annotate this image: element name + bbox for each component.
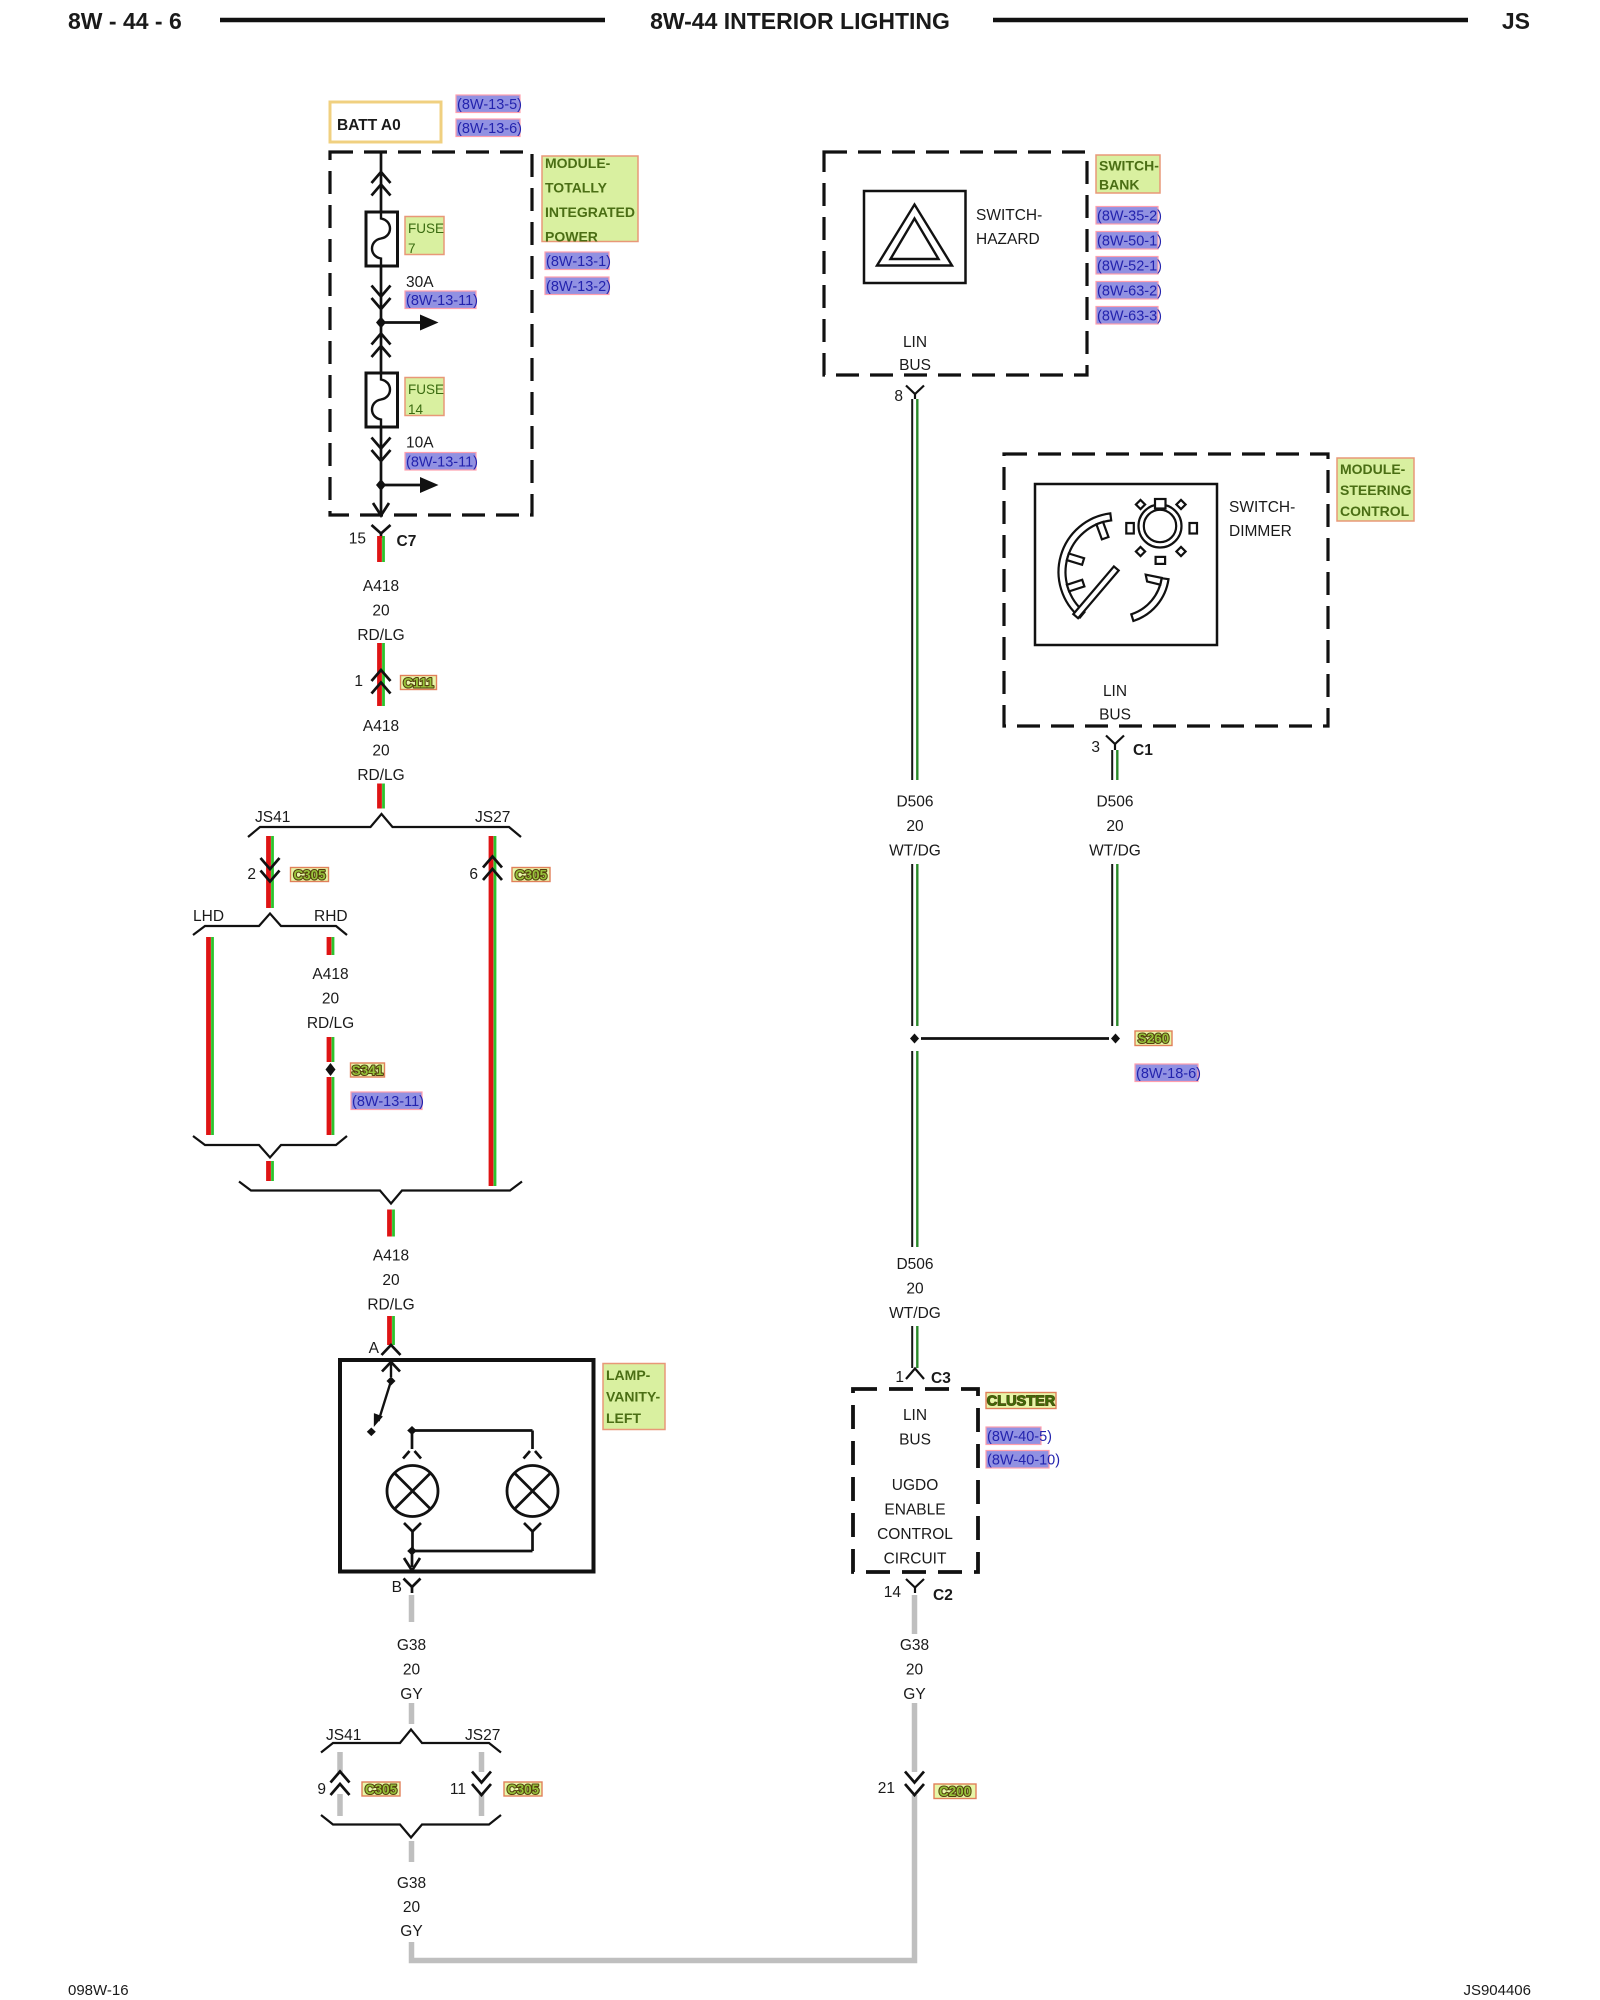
header rule right <box>993 18 1468 23</box>
label FUSE 14 <box>405 378 444 416</box>
svg-text:DIMMER: DIMMER <box>1229 523 1292 540</box>
label LAMP-VANITY-LEFT <box>603 1364 665 1430</box>
wire LIN bus from C1 <box>1111 750 1113 780</box>
wire JS41 gray branch <box>337 1752 343 1772</box>
wire fuse 7 to fuse 14 <box>380 266 383 373</box>
svg-text:(8W-13-11): (8W-13-11) <box>406 293 478 309</box>
svg-text:WT/DG: WT/DG <box>889 1305 941 1322</box>
connector C305 chevrons up <box>483 857 502 868</box>
connector C1 <box>1106 736 1124 745</box>
dimmer sun ring <box>1139 505 1182 548</box>
svg-text:8: 8 <box>894 388 903 405</box>
svg-text:(8W-63-3): (8W-63-3) <box>1097 309 1162 325</box>
svg-text:20: 20 <box>403 1899 421 1916</box>
svg-text:VANITY-: VANITY- <box>606 1389 661 1405</box>
wire G38 gray <box>912 1595 918 1634</box>
svg-text:G38: G38 <box>397 1637 426 1654</box>
label SWITCH-BANK <box>1096 155 1160 193</box>
svg-text:RD/LG: RD/LG <box>307 1015 354 1032</box>
wire to lamp pin A <box>387 1316 392 1345</box>
wire battery feed into fuse 7 <box>380 152 383 212</box>
svg-text:BUS: BUS <box>1099 707 1131 724</box>
cluster dashed box <box>853 1389 978 1572</box>
wire gray to ground run <box>412 1795 915 1961</box>
svg-text:LHD: LHD <box>193 908 224 925</box>
svg-text:SWITCH-: SWITCH- <box>976 207 1042 224</box>
svg-text:C305: C305 <box>293 868 326 883</box>
wire below merge <box>387 1210 392 1237</box>
switch blade <box>379 1381 392 1421</box>
label C305 <box>291 868 329 882</box>
svg-text:10A: 10A <box>406 435 434 452</box>
svg-text:7: 7 <box>408 241 416 256</box>
svg-text:20: 20 <box>906 1281 924 1298</box>
svg-text:3: 3 <box>1091 739 1100 756</box>
switch pivot <box>387 1377 396 1386</box>
dimmer tick 4 <box>1146 575 1162 585</box>
fuse F7 <box>366 212 398 266</box>
svg-text:BUS: BUS <box>899 357 931 374</box>
svg-text:RD/LG: RD/LG <box>357 627 404 644</box>
pin A chevron inside <box>382 1362 400 1372</box>
svg-text:C3: C3 <box>931 1370 951 1387</box>
svg-text:A418: A418 <box>363 578 399 595</box>
connector pin B <box>404 1579 421 1588</box>
svg-text:WT/DG: WT/DG <box>889 843 941 860</box>
svg-text:LEFT: LEFT <box>606 1410 641 1426</box>
svg-text:S341: S341 <box>352 1063 384 1078</box>
connector C3 chevron <box>906 1369 924 1380</box>
svg-text:C111: C111 <box>403 676 434 691</box>
lamp 1 lower connector <box>404 1523 421 1532</box>
svg-text:C305: C305 <box>365 1782 398 1797</box>
ref label (8W-13-11) <box>405 453 476 471</box>
connector C305 chevrons down <box>472 1772 491 1783</box>
svg-text:(8W-18-6): (8W-18-6) <box>1136 1066 1201 1082</box>
merge brace to single feed <box>239 1182 522 1204</box>
svg-text:GY: GY <box>903 1686 925 1703</box>
svg-text:ENABLE: ENABLE <box>884 1502 945 1519</box>
svg-text:C305: C305 <box>515 868 548 883</box>
ref label (8W-18-6) <box>1135 1064 1198 1082</box>
wire below merge <box>266 1161 271 1181</box>
hazard triangle outer <box>877 205 952 266</box>
svg-text:C305: C305 <box>507 1782 540 1797</box>
svg-text:098W-16: 098W-16 <box>68 1982 129 1999</box>
ref label (8W-52-1) <box>1096 257 1158 275</box>
label CLUSTER <box>986 1393 1056 1409</box>
wire LIN bus to cluster <box>911 1326 913 1368</box>
svg-text:MODULE-: MODULE- <box>545 155 611 171</box>
svg-text:14: 14 <box>884 1584 902 1601</box>
ref label (8W-13-11) <box>351 1092 422 1110</box>
svg-text:(8W-40-10): (8W-40-10) <box>987 1453 1060 1469</box>
steering control module dashed box <box>1004 454 1328 726</box>
svg-text:20: 20 <box>906 818 924 835</box>
connector C200 chevrons down <box>905 1772 924 1783</box>
switch contact <box>367 1428 376 1437</box>
connector C305 chevrons down <box>261 858 280 869</box>
dimmer tick 3 <box>1067 580 1085 592</box>
svg-text:(8W-13-2): (8W-13-2) <box>546 279 611 295</box>
svg-text:MODULE-: MODULE- <box>1340 461 1406 477</box>
svg-text:(8W-52-1): (8W-52-1) <box>1097 259 1162 275</box>
svg-text:S260: S260 <box>1138 1031 1170 1046</box>
svg-text:20: 20 <box>906 1662 924 1679</box>
ref label (8W-13-6) <box>456 119 520 137</box>
svg-text:11: 11 <box>450 1781 466 1798</box>
svg-text:LIN: LIN <box>903 334 927 351</box>
label C305 <box>512 868 550 882</box>
lamp vanity left box <box>340 1360 594 1572</box>
ref label (8W-63-3) <box>1096 307 1158 325</box>
ref label (8W-40-10) <box>986 1451 1049 1469</box>
label MODULE-TOTALLY INTEGRATED POWER <box>542 156 638 242</box>
connector C111 chevrons <box>372 670 391 681</box>
svg-text:C7: C7 <box>397 533 417 550</box>
svg-text:14: 14 <box>408 402 424 417</box>
svg-text:C200: C200 <box>939 1784 971 1799</box>
dimmer sun top notch <box>1155 499 1166 509</box>
svg-text:JS: JS <box>1502 8 1530 34</box>
lamp 2 connector chevron <box>524 1451 531 1459</box>
merge brace LHD/RHD <box>193 1136 347 1158</box>
header rule left <box>220 18 605 23</box>
svg-text:CIRCUIT: CIRCUIT <box>884 1551 947 1568</box>
lamp return wire bottom <box>412 1550 533 1553</box>
lamp 1 bulb <box>387 1466 438 1517</box>
ref label (8W-13-11) <box>405 291 476 309</box>
label S341 <box>351 1063 385 1077</box>
svg-text:TOTALLY: TOTALLY <box>545 180 608 196</box>
wire RHD to splice S341 <box>327 1037 332 1062</box>
switch bank dashed box <box>824 152 1087 375</box>
svg-text:JS27: JS27 <box>475 809 510 826</box>
svg-text:20: 20 <box>1106 818 1124 835</box>
off-page chevrons up <box>372 334 391 345</box>
svg-text:20: 20 <box>372 743 390 760</box>
splice brace LHD/RHD <box>193 914 347 936</box>
wire A418 RD/LG to splice brace <box>377 784 382 809</box>
connector pin 8 <box>906 386 924 395</box>
svg-text:LAMP-: LAMP- <box>606 1367 651 1383</box>
wire gray to C200 <box>912 1703 918 1772</box>
label MODULE-STEERING CONTROL <box>1337 458 1414 521</box>
svg-text:A418: A418 <box>363 718 399 735</box>
dimmer gauge arc <box>1059 513 1112 617</box>
svg-text:BATT A0: BATT A0 <box>337 117 401 134</box>
svg-text:JS41: JS41 <box>326 1727 361 1744</box>
wire LIN bus <box>911 864 913 1026</box>
dimmer gauge arc right <box>1131 578 1168 621</box>
splice brace JS41/JS27 lower <box>321 1730 501 1753</box>
label S260 <box>1135 1031 1172 1046</box>
label C305 <box>504 1782 542 1796</box>
chevrons down <box>372 286 391 297</box>
svg-text:(8W-13-11): (8W-13-11) <box>406 455 478 471</box>
svg-text:C2: C2 <box>933 1587 953 1604</box>
svg-text:GY: GY <box>400 1923 422 1940</box>
junction node with tap arrow <box>376 479 386 491</box>
ref label (8W-50-1) <box>1096 232 1158 250</box>
wire JS41 branch <box>266 836 271 908</box>
dimmer sun rays <box>1136 500 1145 509</box>
svg-text:(8W-13-6): (8W-13-6) <box>457 121 522 137</box>
merge brace lower <box>321 1815 501 1838</box>
connector C7 <box>372 525 391 534</box>
label C305 <box>362 1782 400 1796</box>
svg-text:21: 21 <box>878 1780 895 1797</box>
fuse F14 <box>366 373 398 427</box>
svg-text:RHD: RHD <box>314 908 348 925</box>
lamp 1 connector chevron <box>403 1451 410 1459</box>
svg-text:A418: A418 <box>373 1248 409 1265</box>
svg-text:SWITCH-: SWITCH- <box>1099 158 1159 174</box>
svg-text:8W-44 INTERIOR LIGHTING: 8W-44 INTERIOR LIGHTING <box>650 8 950 34</box>
lamp 2 lower connector <box>524 1523 541 1532</box>
wire A418 RD/LG <box>377 643 382 706</box>
wire S341 down <box>327 1077 332 1135</box>
wire RHD branch <box>327 937 332 955</box>
svg-text:JS904406: JS904406 <box>1463 1982 1531 1999</box>
ref label (8W-13-5) <box>456 95 520 113</box>
svg-text:JS27: JS27 <box>465 1727 500 1744</box>
wire LHD branch <box>206 937 211 1135</box>
wire JS27 branch long <box>489 836 494 1186</box>
svg-text:1: 1 <box>354 673 363 690</box>
svg-text:RD/LG: RD/LG <box>357 767 404 784</box>
svg-text:20: 20 <box>322 991 340 1008</box>
splice S260 link <box>921 1037 1109 1040</box>
svg-text:D506: D506 <box>896 794 933 811</box>
svg-text:G38: G38 <box>397 1875 426 1892</box>
svg-text:(8W-40-5): (8W-40-5) <box>987 1429 1052 1445</box>
svg-text:8W - 44 - 6: 8W - 44 - 6 <box>68 8 182 34</box>
svg-text:BANK: BANK <box>1099 177 1139 193</box>
lamp feed wire top <box>412 1429 533 1432</box>
connector C2 <box>906 1579 924 1588</box>
svg-text:GY: GY <box>400 1686 422 1703</box>
label C111 <box>401 676 437 690</box>
ref label (8W-13-2) <box>545 277 609 295</box>
ref label (8W-35-2) <box>1096 207 1158 225</box>
svg-text:20: 20 <box>382 1272 400 1289</box>
connector C305 chevrons up <box>331 1772 350 1783</box>
svg-text:LIN: LIN <box>1103 683 1127 700</box>
svg-text:(8W-13-5): (8W-13-5) <box>457 97 522 113</box>
svg-text:CONTROL: CONTROL <box>1340 503 1410 519</box>
svg-text:LIN: LIN <box>903 1407 927 1424</box>
svg-text:6: 6 <box>469 866 478 883</box>
svg-text:WT/DG: WT/DG <box>1089 843 1141 860</box>
connector pin A chevron <box>382 1345 401 1355</box>
svg-text:G38: G38 <box>900 1637 929 1654</box>
svg-text:30A: 30A <box>406 274 434 291</box>
svg-text:JS41: JS41 <box>255 809 290 826</box>
off-page chevrons up <box>372 172 391 183</box>
svg-text:15: 15 <box>349 531 366 548</box>
svg-text:(8W-13-11): (8W-13-11) <box>352 1094 424 1110</box>
svg-text:FUSE: FUSE <box>408 382 444 397</box>
ref label (8W-63-2) <box>1096 282 1158 300</box>
svg-text:FUSE: FUSE <box>408 221 444 236</box>
svg-text:9: 9 <box>317 1781 326 1798</box>
chevrons down <box>372 438 391 449</box>
svg-text:STEERING: STEERING <box>1340 482 1412 498</box>
svg-text:1: 1 <box>895 1369 904 1386</box>
junction node with tap arrow <box>376 317 386 329</box>
wire G38 gray <box>409 1595 415 1622</box>
svg-text:20: 20 <box>403 1662 421 1679</box>
hazard triangle inner <box>891 219 939 260</box>
hazard switch box <box>864 191 966 283</box>
svg-text:(8W-35-2): (8W-35-2) <box>1097 209 1162 225</box>
svg-text:UGDO: UGDO <box>892 1477 939 1494</box>
svg-text:C1: C1 <box>1133 742 1153 759</box>
wire A418 RD/LG <box>377 536 382 562</box>
svg-text:BUS: BUS <box>899 1432 931 1449</box>
wire JS27 gray branch <box>479 1752 485 1772</box>
wire LIN bus to splice <box>1111 864 1113 1026</box>
module TIPM dashed box <box>330 152 532 515</box>
battery feed box BATT A0 <box>330 102 441 142</box>
svg-text:20: 20 <box>372 603 390 620</box>
svg-text:SWITCH-: SWITCH- <box>1229 499 1295 516</box>
dimmer needle <box>1073 566 1118 618</box>
svg-text:RD/LG: RD/LG <box>367 1297 414 1314</box>
ref label (8W-13-1) <box>545 252 609 270</box>
svg-text:2: 2 <box>247 866 256 883</box>
svg-text:INTEGRATED: INTEGRATED <box>545 204 635 220</box>
wire gray below merge <box>409 1841 415 1862</box>
svg-text:A418: A418 <box>312 966 348 983</box>
lamp 2 bulb <box>507 1466 558 1517</box>
wire LIN bus D506 <box>911 399 913 780</box>
svg-text:B: B <box>392 1579 402 1596</box>
svg-text:D506: D506 <box>1096 794 1133 811</box>
svg-text:(8W-13-1): (8W-13-1) <box>546 254 611 270</box>
svg-text:CLUSTER: CLUSTER <box>987 1394 1056 1410</box>
dimmer tick 2 <box>1067 554 1084 565</box>
svg-text:D506: D506 <box>896 1256 933 1273</box>
wire to pin B with arrow <box>411 1551 414 1567</box>
splice S341 node <box>326 1063 336 1076</box>
wire fuse 14 to connector C7 <box>380 427 383 514</box>
label C200 <box>934 1784 976 1799</box>
ref label (8W-40-5) <box>986 1427 1041 1445</box>
wire LIN bus below splice <box>911 1051 913 1247</box>
label FUSE 7 <box>405 217 444 255</box>
svg-text:HAZARD: HAZARD <box>976 231 1040 248</box>
svg-text:(8W-63-2): (8W-63-2) <box>1097 284 1162 300</box>
svg-text:A: A <box>369 1340 380 1357</box>
dimmer switch box <box>1035 484 1217 645</box>
dimmer tick 1 <box>1096 522 1108 540</box>
svg-text:POWER: POWER <box>545 229 598 245</box>
svg-text:(8W-50-1): (8W-50-1) <box>1097 234 1162 250</box>
wire gray to splice brace <box>409 1703 415 1724</box>
svg-text:CONTROL: CONTROL <box>877 1526 953 1543</box>
arrow out of module <box>373 503 389 516</box>
splice brace JS41/JS27 <box>248 814 521 837</box>
